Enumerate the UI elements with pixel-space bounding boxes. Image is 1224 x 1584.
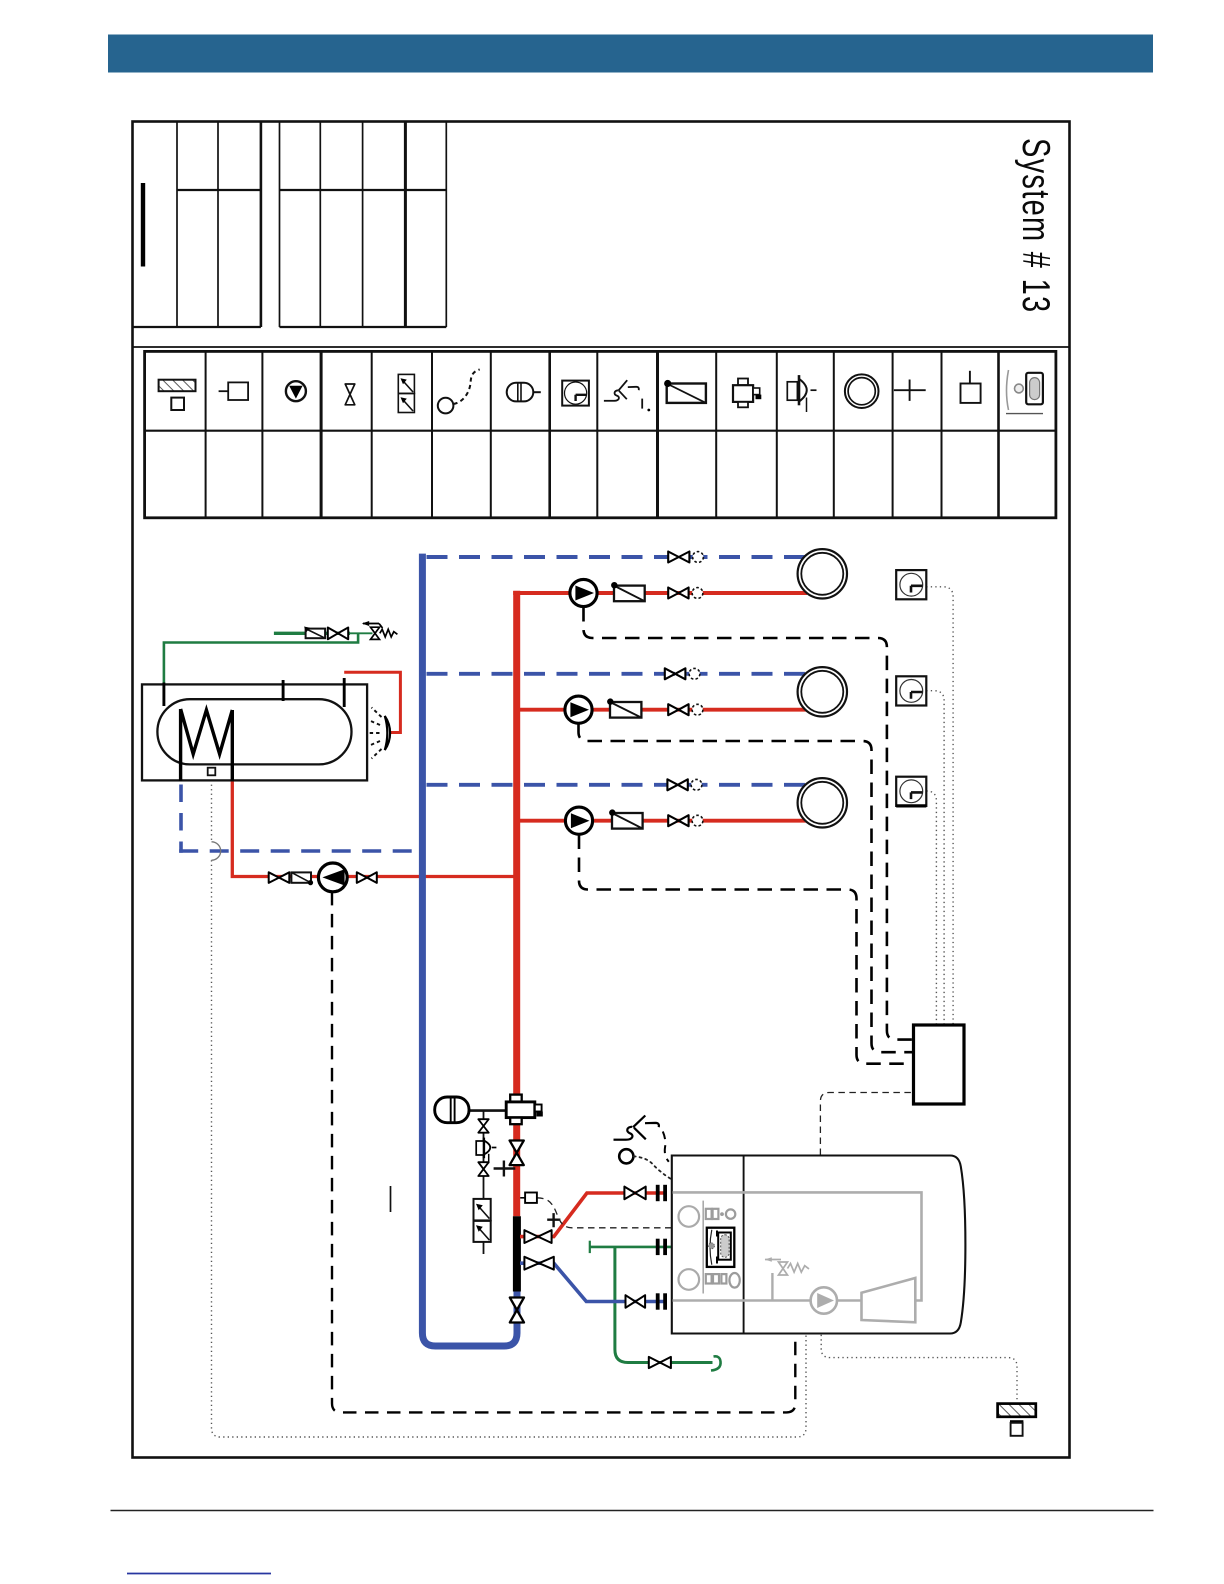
zone 3 supply drain xyxy=(692,815,703,826)
feed check valve xyxy=(304,627,325,639)
return main gate valve xyxy=(510,1298,524,1323)
boiler knob 2 xyxy=(679,1269,700,1290)
return main (blue) xyxy=(422,554,517,1346)
boiler indicator row xyxy=(706,1209,736,1219)
feed gate valve xyxy=(328,628,348,640)
legend: gate valve symbol xyxy=(345,384,355,405)
boiler internal supply pipe xyxy=(673,1192,922,1300)
boiler drain pipe (green) xyxy=(615,1247,713,1363)
boiler supply branch (red) xyxy=(520,1193,667,1237)
fill valve 2 xyxy=(478,1162,488,1176)
legend: dual check valve symbol xyxy=(398,374,414,412)
zone 2 return (dashed) xyxy=(427,672,807,676)
indirect tank shell xyxy=(157,699,351,764)
boiler knob 1 xyxy=(679,1206,700,1227)
boiler display xyxy=(707,1228,735,1267)
DHW circulator pump xyxy=(318,863,347,892)
legend: circulator pump symbol xyxy=(286,381,306,401)
fill valve 1 xyxy=(478,1119,488,1133)
DHW pump wire (dashed) xyxy=(332,892,795,1413)
footer rule xyxy=(111,1510,1154,1512)
zone 3 circulator pump xyxy=(565,807,592,834)
zone 3 heat emitter xyxy=(798,778,847,827)
zone 2 supply drain xyxy=(692,704,703,715)
zone 2 circulator pump xyxy=(565,696,592,723)
legend table xyxy=(145,351,1056,517)
zone 1 return (dashed) xyxy=(427,555,807,559)
relief discharge pipe (red) xyxy=(344,672,400,732)
riser black segment xyxy=(513,1216,521,1291)
legend: aquastat switch symbol xyxy=(604,380,650,411)
DHW recirc pipe (red) xyxy=(232,781,513,877)
title block thick mark xyxy=(141,183,145,267)
thermostat 3 wire (dotted) xyxy=(926,791,936,1025)
tank port 3 xyxy=(343,678,346,707)
boiler return branch (blue) xyxy=(520,1263,667,1301)
low water cutoff sensor xyxy=(619,1149,633,1163)
zone 2 return valve xyxy=(665,668,686,679)
boiler heat exchanger xyxy=(862,1278,916,1322)
control box xyxy=(914,1025,965,1104)
zone 2 return drain xyxy=(689,668,700,679)
title block grid xyxy=(133,122,1070,347)
thermostat 1 wire (dotted) xyxy=(926,587,953,1025)
DHW gate valve 2 xyxy=(357,872,377,883)
supply main gate valve xyxy=(510,1141,524,1166)
boiler return isolation valve B xyxy=(626,1295,646,1308)
legend: expansion tank symbol xyxy=(507,383,541,402)
zone 3 supply valve xyxy=(668,815,688,826)
legend: thermostat symbol xyxy=(562,381,589,406)
zone 1 circulator pump xyxy=(570,579,597,606)
boiler supply isolation valve B xyxy=(624,1187,645,1200)
boiler return isolation valve A xyxy=(524,1257,553,1270)
low water cutoff wire (dashed) xyxy=(663,1132,669,1162)
leader mark line xyxy=(390,1186,392,1212)
supply sensor xyxy=(520,1193,537,1203)
fill pressure reducing valve xyxy=(476,1138,496,1164)
boiler supply flange xyxy=(656,1185,667,1201)
zone 2 heat emitter xyxy=(798,667,847,716)
boiler supply isolation valve A xyxy=(524,1230,551,1243)
thermostat 2 wire (dotted) xyxy=(926,691,944,1025)
outdoor sensor wire (dotted) xyxy=(821,1335,1017,1403)
purge tee cross A xyxy=(494,1161,516,1177)
boiler cabinet xyxy=(672,1156,966,1334)
zone 3 return (dashed) xyxy=(427,783,807,787)
zone 2 supply valve xyxy=(668,704,688,715)
air separator xyxy=(506,1095,543,1125)
legend: flow-check valve symbol xyxy=(664,380,706,403)
tank port 1 xyxy=(162,683,165,707)
low water cutoff sensor wire (dotted) xyxy=(634,1156,671,1179)
fill line (black thin) xyxy=(483,1111,485,1254)
zone 1 supply valve xyxy=(668,588,688,599)
header bar xyxy=(108,35,1153,73)
purge tee cross B xyxy=(547,1213,560,1227)
outdoor sensor xyxy=(998,1404,1036,1436)
tank return (dashed) horizontal xyxy=(179,849,419,853)
boiler fill flange xyxy=(656,1239,667,1255)
cold feed pipe (green) xyxy=(274,632,350,635)
zone 1 flow-check valve xyxy=(611,582,645,601)
zone 3 flow-check valve xyxy=(609,809,643,828)
zone 3 supply (red) xyxy=(520,819,807,823)
boiler lower indicator row xyxy=(706,1273,740,1288)
wire hop arc xyxy=(212,842,221,860)
zone 1 return valve xyxy=(668,552,689,563)
thermostat 3 xyxy=(896,777,926,806)
zone 1 heat emitter xyxy=(798,549,847,598)
expansion tank connector xyxy=(467,1109,507,1112)
zone 1 pump wire (dashed) xyxy=(584,607,914,1040)
zone 2 flow-check valve xyxy=(607,698,641,717)
feed pressure relief valve xyxy=(362,621,398,639)
DHW gate valve 1 xyxy=(269,872,290,883)
zone 1 return drain xyxy=(693,552,704,563)
outer drawing frame xyxy=(133,122,1070,1458)
expansion tank xyxy=(435,1097,469,1123)
boiler front divider xyxy=(743,1156,745,1334)
tank port 2 xyxy=(282,680,285,701)
supply sensor wire (dashed) xyxy=(537,1198,672,1228)
boiler internal return pipe xyxy=(673,1299,862,1302)
thermostat 1 xyxy=(896,570,926,599)
boiler-control wire (dashed) xyxy=(820,1093,913,1156)
boiler fill stub (green) xyxy=(590,1246,672,1249)
fill cap tick (green) xyxy=(589,1241,591,1253)
boiler return flange xyxy=(656,1293,667,1309)
drain hose hook (green) xyxy=(711,1356,721,1370)
tank aquastat wire (dotted) xyxy=(211,776,213,842)
legend: air separator symbol xyxy=(733,379,761,408)
tank return (dashed) vertical xyxy=(179,785,183,853)
feed to tank pipe (green) xyxy=(164,633,358,683)
relief discharge tundish xyxy=(369,708,390,759)
legend: air vent symbol xyxy=(961,371,981,403)
svg-text:System # 13: System # 13 xyxy=(1014,138,1057,313)
thermostat 2 xyxy=(896,676,926,705)
low water cutoff switch xyxy=(614,1116,659,1140)
legend: heat emitter symbol xyxy=(845,374,879,408)
boiler internal pump xyxy=(811,1287,837,1313)
legend: zone panel symbol xyxy=(219,382,248,400)
legend: purge tee symbol xyxy=(894,380,926,401)
zone 2 pump wire (dashed) xyxy=(579,724,914,1053)
backflow preventer xyxy=(474,1199,491,1242)
zone 1 supply drain xyxy=(692,588,703,599)
zone 2 supply (red) xyxy=(520,708,807,712)
legend: outdoor sensor symbol xyxy=(159,380,196,410)
tank coil xyxy=(181,709,233,781)
legend: sensor with capillary symbol xyxy=(438,369,480,413)
zone 3 return drain xyxy=(691,779,702,790)
legend: pressure reducing valve symbol xyxy=(787,375,816,412)
zone 3 return valve xyxy=(667,779,687,790)
legend: boiler control symbol xyxy=(1006,370,1043,414)
supply main (red) xyxy=(513,591,520,1217)
zone 3 pump wire (dashed) xyxy=(579,835,914,1064)
footer link underline xyxy=(127,1573,271,1575)
tank aquastat xyxy=(208,768,216,776)
indirect tank enclosure xyxy=(142,684,367,780)
boiler panel divider xyxy=(702,1201,704,1294)
zone 1 supply (red) xyxy=(513,591,807,595)
DHW flow-check valve xyxy=(291,872,313,885)
boiler drain valve xyxy=(649,1357,671,1368)
boiler internal relief valve xyxy=(765,1257,809,1300)
